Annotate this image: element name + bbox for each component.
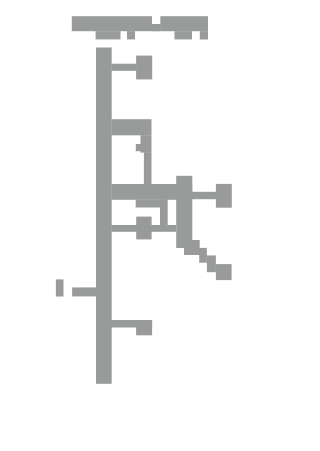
- node VCC rail label: [72, 16, 152, 31]
- terminal pin P2: [216, 184, 232, 208]
- wire from C1: [72, 287, 96, 296]
- wire to pin P2: [192, 192, 216, 199]
- ground: [136, 320, 152, 335]
- wire node A horizontal bar: [112, 184, 193, 200]
- terminal pin P1: [136, 56, 152, 80]
- transistor Q1: [136, 200, 168, 208]
- wire to pin P1: [112, 64, 137, 71]
- wire diagonal drop: [176, 176, 192, 248]
- ground stub wire: [112, 320, 153, 328]
- wire main vertical bus: [96, 48, 112, 384]
- wire base of Q1: [112, 225, 176, 232]
- node B junction: [216, 264, 232, 280]
- capacitor C1: [56, 279, 64, 296]
- resistor R1: [112, 119, 152, 135]
